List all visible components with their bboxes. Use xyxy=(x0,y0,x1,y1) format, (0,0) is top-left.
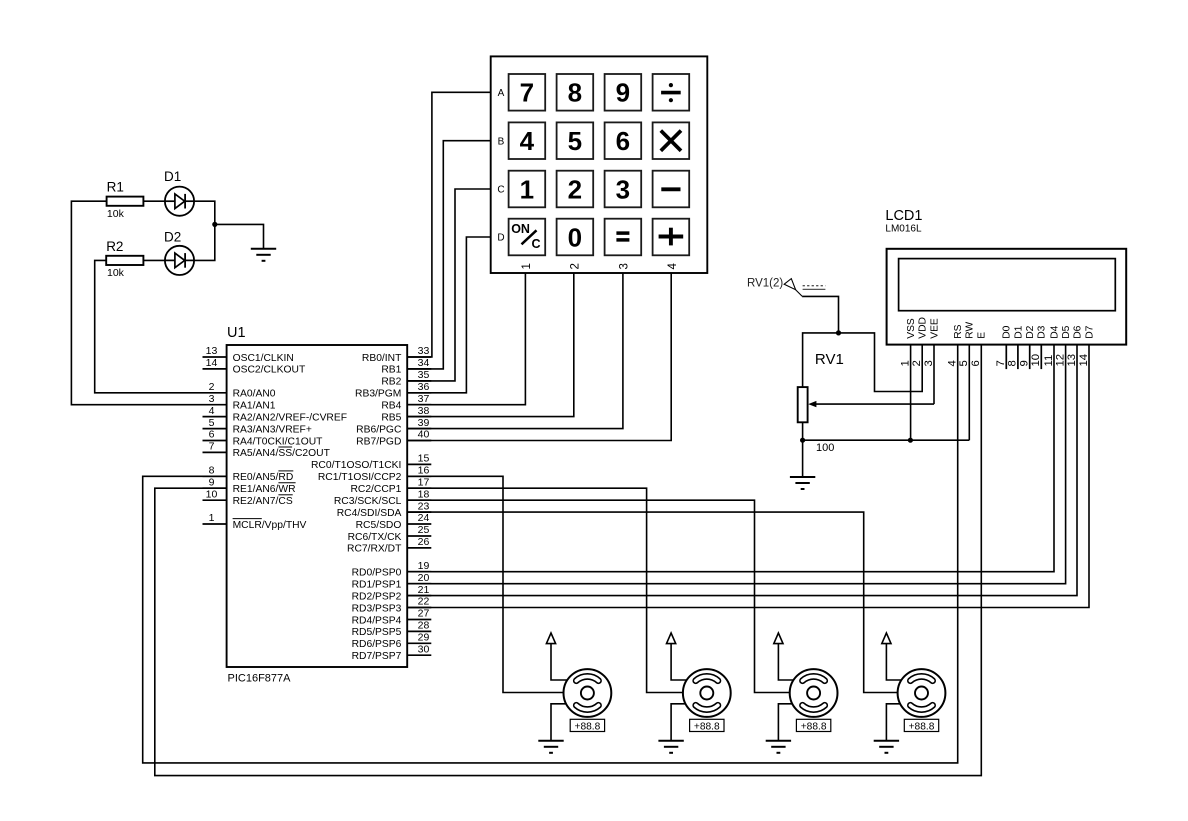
pin 27 RD4/PSP4 xyxy=(352,608,432,627)
wire RB0 to keypad row A xyxy=(407,92,491,357)
svg-text:RE1/AN6/WR: RE1/AN6/WR xyxy=(233,484,296,495)
svg-text:D6: D6 xyxy=(1072,325,1083,338)
svg-text:R1: R1 xyxy=(107,180,124,195)
wire RB3 to keypad row D xyxy=(407,237,491,393)
resistor R1 xyxy=(107,197,144,206)
motor M3 xyxy=(790,669,838,717)
key 9 xyxy=(605,74,642,111)
svg-text:28: 28 xyxy=(418,620,430,632)
svg-text:13: 13 xyxy=(206,345,218,357)
svg-text:RC1/T1OSI/CCP2: RC1/T1OSI/CCP2 xyxy=(318,472,402,483)
svg-text:22: 22 xyxy=(418,596,430,608)
svg-text:7: 7 xyxy=(995,360,1007,366)
svg-text:1: 1 xyxy=(520,174,534,204)
pin 25 RC6/TX/CK xyxy=(348,524,432,543)
svg-text:C: C xyxy=(497,185,504,196)
motor 1 ground wire xyxy=(551,704,566,741)
key 7 xyxy=(509,74,546,111)
label PIC16F877A xyxy=(228,673,292,685)
ground (motor 2) xyxy=(658,741,683,753)
svg-text:VDD: VDD xyxy=(918,317,929,339)
LCD pin 14 D7 label xyxy=(1078,325,1096,366)
svg-text:RB0/INT: RB0/INT xyxy=(362,353,402,364)
pin 18 RC3/SCK/SCL xyxy=(334,488,431,507)
label 10k (R1) xyxy=(107,208,125,220)
LCD pin 10 D3 label xyxy=(1030,325,1048,366)
svg-text:RD4/PSP4: RD4/PSP4 xyxy=(352,615,402,626)
wire RB2 to keypad row C xyxy=(407,189,491,381)
pin 24 RC5/SDO xyxy=(356,512,432,531)
svg-text:2: 2 xyxy=(209,381,215,393)
wire keypad column 1 to RB4 xyxy=(407,273,525,405)
svg-text:9: 9 xyxy=(209,476,215,488)
wire RE1 to LCD E (bottom bus) xyxy=(155,345,982,776)
svg-text:2: 2 xyxy=(911,360,923,366)
pin 15 RC0/T1OSO/T1CKI xyxy=(311,453,431,472)
wire pot to ground symbol xyxy=(802,440,804,477)
label 100 xyxy=(816,442,834,454)
svg-text:RE2/AN7/CS: RE2/AN7/CS xyxy=(233,496,293,507)
key 4 xyxy=(509,122,546,159)
svg-text:14: 14 xyxy=(206,357,218,369)
svg-text:10k: 10k xyxy=(107,208,125,220)
LCD pin 11 D4 label xyxy=(1043,325,1061,366)
motor 3 plus-terminal arrow wire xyxy=(774,633,794,680)
ground (motor 4) xyxy=(874,741,899,753)
svg-text:37: 37 xyxy=(418,393,430,405)
motor M4 xyxy=(898,669,946,717)
motor 4 plus-terminal arrow wire xyxy=(882,633,902,680)
svg-text:RD5/PSP5: RD5/PSP5 xyxy=(352,627,402,638)
LCD pin 7 D0 label xyxy=(995,325,1013,366)
key ON/C xyxy=(509,219,546,256)
label 10k (R2) xyxy=(107,267,125,279)
keypad row label A xyxy=(498,88,505,99)
pin 30 RD7/PSP7 xyxy=(352,644,432,663)
pin 2 RA0/AN0 xyxy=(203,381,276,400)
motor 2 plus-terminal arrow wire xyxy=(667,633,687,680)
svg-text:12: 12 xyxy=(1054,354,1066,367)
svg-text:23: 23 xyxy=(418,500,430,512)
svg-text:1: 1 xyxy=(899,360,911,366)
motor 4 ground wire xyxy=(886,704,900,741)
wire VEE to wiper xyxy=(933,345,935,405)
keypad column label 3 xyxy=(619,263,631,269)
svg-text:PIC16F877A: PIC16F877A xyxy=(228,673,292,685)
svg-text:RD2/PSP2: RD2/PSP2 xyxy=(352,591,402,602)
svg-text:11: 11 xyxy=(1043,355,1055,367)
svg-text:RD1/PSP1: RD1/PSP1 xyxy=(352,580,402,591)
svg-text:C: C xyxy=(532,237,541,251)
svg-text:9: 9 xyxy=(616,78,630,108)
svg-text:RC7/RX/DT: RC7/RX/DT xyxy=(347,544,402,555)
svg-text:13: 13 xyxy=(1066,354,1078,367)
LCD pin 12 D5 label xyxy=(1054,325,1072,366)
svg-text:D0: D0 xyxy=(1002,325,1013,338)
svg-text:RB4: RB4 xyxy=(381,401,401,412)
pin 23 RC4/SDI/SDA xyxy=(337,500,432,519)
LCD pin 8 D1 label xyxy=(1007,325,1025,366)
motor 4 value label +88.8 xyxy=(904,719,938,732)
pin 10 RE2/AN7/CS xyxy=(203,488,293,507)
wire RC4 to motor 4 xyxy=(407,512,897,692)
svg-text:26: 26 xyxy=(418,536,430,548)
svg-text:LM016L: LM016L xyxy=(885,223,922,234)
junction VSS-ground rail xyxy=(908,438,913,443)
svg-text:7: 7 xyxy=(520,78,534,108)
wire RA0 to R2 xyxy=(95,260,203,392)
key plus xyxy=(653,219,690,256)
LCD pin 6 E label xyxy=(970,332,988,367)
svg-text:D7: D7 xyxy=(1084,325,1095,338)
svg-text:40: 40 xyxy=(418,429,430,441)
pin 39 RB6/PGC xyxy=(356,417,431,436)
svg-text:RC4/SDI/SDA: RC4/SDI/SDA xyxy=(337,508,402,519)
svg-text:27: 27 xyxy=(418,608,430,620)
wire RC1 to motor 1 xyxy=(407,476,563,692)
key 2 xyxy=(557,171,594,208)
wire RC3 to motor 3 xyxy=(407,500,790,692)
pin 17 RC2/CCP1 xyxy=(350,476,431,495)
svg-text:D1: D1 xyxy=(164,169,181,184)
wire ground rail to VSS and RW xyxy=(803,439,970,441)
keypad column label 1 xyxy=(521,263,533,269)
wire keypad column 2 to RB5 xyxy=(407,273,574,417)
label R1 xyxy=(107,180,124,195)
LCD pin D3 stub xyxy=(1040,345,1042,370)
wire RD3 to LCD D7 xyxy=(407,345,1089,608)
key divide xyxy=(653,74,690,111)
pin 14 OSC2/CLKOUT xyxy=(203,357,306,376)
svg-text:RV1(2): RV1(2) xyxy=(747,278,783,290)
svg-text:19: 19 xyxy=(418,560,430,572)
wire pot bottom to ground node xyxy=(802,422,804,440)
LCD pin D0 stub xyxy=(1005,345,1007,370)
pin 20 RD1/PSP1 xyxy=(352,572,432,591)
wire RD2 to LCD D6 xyxy=(407,345,1077,596)
svg-text:RA5/AN4/SS/C2OUT: RA5/AN4/SS/C2OUT xyxy=(233,448,331,459)
wire RD1 to LCD D5 xyxy=(407,345,1065,584)
key minus xyxy=(653,171,690,208)
wire RC2 to motor 2 xyxy=(407,488,683,692)
svg-text:RD3/PSP3: RD3/PSP3 xyxy=(352,603,402,614)
motor 3 value label +88.8 xyxy=(796,719,830,732)
pin 3 RA1/AN1 xyxy=(203,393,276,412)
LCD pin D1 stub xyxy=(1017,345,1019,370)
svg-text:5: 5 xyxy=(958,360,970,366)
junction pot-bottom xyxy=(800,438,805,443)
svg-text:7: 7 xyxy=(209,441,215,453)
svg-text:RB6/PGC: RB6/PGC xyxy=(356,424,402,435)
wire RE0 to LCD RS (bottom bus) xyxy=(143,345,958,763)
key 8 xyxy=(557,74,594,111)
svg-text:RA4/T0CKI/C1OUT: RA4/T0CKI/C1OUT xyxy=(233,436,324,447)
svg-text:ON: ON xyxy=(511,222,530,236)
label D1 xyxy=(164,169,181,184)
svg-text:36: 36 xyxy=(418,381,430,393)
svg-text:D2: D2 xyxy=(1025,325,1036,338)
svg-text:4: 4 xyxy=(667,263,679,270)
svg-text:RB2: RB2 xyxy=(381,377,401,388)
svg-text:RV1: RV1 xyxy=(815,351,844,368)
svg-text:39: 39 xyxy=(418,417,430,429)
pin 21 RD2/PSP2 xyxy=(352,584,432,603)
svg-text:RA0/AN0: RA0/AN0 xyxy=(233,389,276,400)
svg-text:RA3/AN3/VREF+: RA3/AN3/VREF+ xyxy=(233,424,312,435)
svg-text:14: 14 xyxy=(1078,354,1090,367)
svg-text:RC5/SDO: RC5/SDO xyxy=(356,520,402,531)
pin 26 RC7/RX/DT xyxy=(347,536,431,555)
svg-text:D: D xyxy=(497,233,504,244)
svg-text:D1: D1 xyxy=(1013,325,1024,338)
svg-text:34: 34 xyxy=(418,357,430,369)
wire cathode node to ground xyxy=(215,224,264,248)
pin 35 RB2 xyxy=(381,369,431,388)
svg-text:5: 5 xyxy=(568,126,582,156)
svg-text:D2: D2 xyxy=(164,230,181,245)
LCD pin D2 stub xyxy=(1029,345,1031,370)
svg-text:100: 100 xyxy=(816,442,834,454)
wire RW down xyxy=(968,345,970,441)
motor 2 value label +88.8 xyxy=(690,719,724,732)
label RV1 xyxy=(815,351,844,368)
svg-text:B: B xyxy=(498,136,505,147)
motor 3 ground wire xyxy=(778,704,792,741)
pin 4 RA2/AN2/VREF-/CVREF xyxy=(203,405,348,424)
key equals xyxy=(605,219,642,256)
svg-text:R2: R2 xyxy=(106,239,123,254)
ground (motor 3) xyxy=(766,741,791,753)
pin 22 RD3/PSP3 xyxy=(352,596,432,615)
svg-text:24: 24 xyxy=(418,512,430,524)
svg-text:6: 6 xyxy=(616,126,630,156)
wire keypad column 4 to RB7 xyxy=(407,273,671,441)
pin 33 RB0/INT xyxy=(362,345,431,364)
motor M1 xyxy=(564,669,612,717)
svg-text:2: 2 xyxy=(570,263,582,269)
svg-text:RB7/PGD: RB7/PGD xyxy=(356,436,401,447)
svg-text:8: 8 xyxy=(568,78,582,108)
pin 7 RA5/AN4/SS/C2OUT xyxy=(203,441,331,460)
ground (motor 1) xyxy=(538,741,563,753)
svg-text:2: 2 xyxy=(568,174,582,204)
LCD pin 2 VDD label xyxy=(911,317,929,366)
svg-text:25: 25 xyxy=(418,524,430,536)
keypad row label D xyxy=(497,233,504,244)
svg-text:9: 9 xyxy=(1019,360,1031,366)
svg-text:A: A xyxy=(498,88,505,99)
wire RD0 to LCD D4 xyxy=(407,345,1054,572)
LCD screen xyxy=(899,259,1116,311)
ground (RV1) xyxy=(790,477,815,489)
microcontroller U1 body PIC16F877A xyxy=(227,345,408,667)
svg-text:RD7/PSP7: RD7/PSP7 xyxy=(352,651,402,662)
resistor R2 xyxy=(106,256,143,265)
svg-text:D5: D5 xyxy=(1061,325,1072,338)
LCD pin 3 VEE label xyxy=(923,318,941,366)
svg-text:33: 33 xyxy=(418,345,430,357)
label LM016L xyxy=(885,223,922,234)
motor 2 ground wire xyxy=(671,704,685,741)
key 3 xyxy=(605,171,642,208)
svg-text:LCD1: LCD1 xyxy=(885,208,922,224)
potentiometer RV1 body xyxy=(798,387,808,422)
svg-text:35: 35 xyxy=(418,369,430,381)
svg-text:10: 10 xyxy=(1030,354,1042,367)
LCD pin 1 VSS label xyxy=(899,318,917,366)
svg-text:21: 21 xyxy=(418,584,430,596)
LCD pin 5 RW label xyxy=(958,322,976,367)
keypad KEYPAD-CALC body xyxy=(491,56,708,273)
wire R2 to D2 xyxy=(143,259,165,261)
pin 9 RE1/AN6/WR xyxy=(203,476,296,495)
LCD LCD1 body xyxy=(887,249,1127,345)
key multiply xyxy=(653,122,690,159)
svg-text:RB3/PGM: RB3/PGM xyxy=(355,389,401,400)
label RV1(2) xyxy=(747,278,783,290)
svg-text:8: 8 xyxy=(209,465,215,477)
ground (LED branch) xyxy=(251,249,276,261)
junction cathode node xyxy=(212,222,217,227)
pin 36 RB3/PGM xyxy=(355,381,431,400)
svg-text:D3: D3 xyxy=(1037,325,1048,338)
svg-text:17: 17 xyxy=(418,476,430,488)
motor 1 value label +88.8 xyxy=(570,719,604,732)
svg-text:4: 4 xyxy=(947,360,959,366)
wire keypad column 3 to RB6 xyxy=(407,273,623,429)
svg-text:+88.8: +88.8 xyxy=(694,722,720,733)
svg-text:38: 38 xyxy=(418,405,430,417)
svg-text:6: 6 xyxy=(209,429,215,441)
svg-text:RC2/CCP1: RC2/CCP1 xyxy=(350,484,401,495)
pin 16 RC1/T1OSI/CCP2 xyxy=(318,465,431,484)
svg-text:5: 5 xyxy=(209,417,215,429)
svg-text:RW: RW xyxy=(965,322,976,339)
svg-text:RD6/PSP6: RD6/PSP6 xyxy=(352,639,402,650)
svg-text:RD0/PSP0: RD0/PSP0 xyxy=(352,568,402,579)
keypad column label 4 xyxy=(667,263,679,270)
pin 38 RB5 xyxy=(381,405,431,424)
svg-text:6: 6 xyxy=(970,360,982,366)
svg-text:8: 8 xyxy=(1007,360,1019,366)
svg-text:10k: 10k xyxy=(107,267,125,279)
label R2 xyxy=(106,239,123,254)
keypad row label B xyxy=(498,136,505,147)
svg-text:RC0/T1OSO/T1CKI: RC0/T1OSO/T1CKI xyxy=(311,460,401,471)
key 1 xyxy=(509,171,546,208)
label LCD1 xyxy=(885,208,922,224)
svg-text:16: 16 xyxy=(418,465,430,477)
svg-text:3: 3 xyxy=(616,174,630,204)
key 5 xyxy=(557,122,594,159)
svg-text:20: 20 xyxy=(418,572,430,584)
pin 6 RA4/T0CKI/C1OUT xyxy=(203,429,324,448)
wire D1 cathode down to D2 cathode xyxy=(194,201,215,260)
LCD pin 4 RS label xyxy=(947,324,965,366)
RV1(2) wiper position annotation xyxy=(784,279,838,333)
pin 8 RE0/AN5/RD xyxy=(203,465,294,484)
svg-text:+88.8: +88.8 xyxy=(801,722,827,733)
svg-text:RC6/TX/CK: RC6/TX/CK xyxy=(348,532,402,543)
pin 19 RD0/PSP0 xyxy=(352,560,432,579)
diode D2 xyxy=(165,246,194,275)
svg-text:1: 1 xyxy=(209,512,215,524)
RV1 wiper arrow xyxy=(808,401,934,407)
svg-text:18: 18 xyxy=(418,488,430,500)
wire pot top to VDD xyxy=(803,333,923,392)
svg-text:VSS: VSS xyxy=(906,318,917,339)
svg-text:RB5: RB5 xyxy=(381,412,401,423)
svg-text:+88.8: +88.8 xyxy=(909,722,935,733)
keypad column label 2 xyxy=(570,263,582,269)
svg-text:0: 0 xyxy=(568,222,582,252)
pin 34 RB1 xyxy=(381,357,431,376)
svg-text:U1: U1 xyxy=(227,325,246,341)
svg-text:10: 10 xyxy=(206,488,218,500)
svg-text:OSC2/CLKOUT: OSC2/CLKOUT xyxy=(233,365,306,376)
key 0 xyxy=(557,219,594,256)
svg-text:15: 15 xyxy=(418,453,430,465)
svg-text:RA1/AN1: RA1/AN1 xyxy=(233,401,276,412)
wire RA1 to R1 xyxy=(71,201,202,405)
svg-text:RA2/AN2/VREF-/CVREF: RA2/AN2/VREF-/CVREF xyxy=(233,412,347,423)
svg-text:RB1: RB1 xyxy=(381,365,401,376)
wire VSS down xyxy=(910,345,912,441)
svg-text:VEE: VEE xyxy=(929,318,940,339)
junction wiper-annotation node xyxy=(836,330,841,335)
pin 5 RA3/AN3/VREF+ xyxy=(203,417,312,436)
label U1 xyxy=(227,325,246,341)
keypad row label C xyxy=(497,185,504,196)
pin 29 RD6/PSP6 xyxy=(352,632,432,651)
motor 1 plus-terminal arrow wire xyxy=(546,633,567,680)
svg-text:RS: RS xyxy=(953,324,964,338)
svg-text:1: 1 xyxy=(521,263,533,269)
LCD pin 13 D6 label xyxy=(1066,325,1084,366)
svg-text:E: E xyxy=(977,332,988,339)
LCD pin 9 D2 label xyxy=(1019,325,1037,366)
svg-text:29: 29 xyxy=(418,632,430,644)
svg-text:D4: D4 xyxy=(1049,325,1060,338)
svg-text:MCLR/Vpp/THV: MCLR/Vpp/THV xyxy=(233,520,307,531)
wire RB1 to keypad row B xyxy=(407,141,491,369)
wire R1 to D1 xyxy=(143,200,165,202)
pin 37 RB4 xyxy=(381,393,431,412)
pin 40 RB7/PGD xyxy=(356,429,431,448)
svg-text:30: 30 xyxy=(418,644,430,656)
motor M2 xyxy=(683,669,731,717)
key 6 xyxy=(605,122,642,159)
svg-text:RC3/SCK/SCL: RC3/SCK/SCL xyxy=(334,496,402,507)
label D2 xyxy=(164,230,181,245)
svg-text:3: 3 xyxy=(923,360,935,366)
svg-text:+88.8: +88.8 xyxy=(575,722,601,733)
svg-text:4: 4 xyxy=(520,126,535,156)
svg-text:OSC1/CLKIN: OSC1/CLKIN xyxy=(233,353,294,364)
svg-text:3: 3 xyxy=(209,393,215,405)
svg-text:RE0/AN5/RD: RE0/AN5/RD xyxy=(233,472,294,483)
pin 13 OSC1/CLKIN xyxy=(203,345,294,364)
svg-text:4: 4 xyxy=(209,405,215,417)
pin 28 RD5/PSP5 xyxy=(352,620,432,639)
svg-text:3: 3 xyxy=(619,263,631,269)
pin 1 MCLR/Vpp/THV xyxy=(203,512,307,531)
diode D1 xyxy=(165,187,194,216)
